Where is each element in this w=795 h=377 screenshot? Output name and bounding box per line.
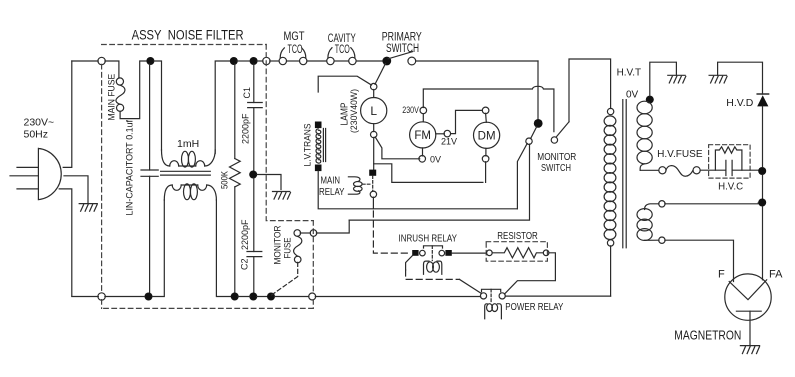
power relay circle right — [499, 293, 505, 299]
wire HVC to rail dot — [732, 169, 758, 171]
wire top bus between dots — [237, 60, 250, 62]
svg-text:1mH: 1mH — [177, 138, 199, 150]
wire HVT 0V to ground — [650, 62, 677, 96]
transformer HVT primary winding — [604, 116, 616, 240]
wire top bus left section — [72, 60, 98, 62]
svg-text:DM: DM — [478, 130, 496, 142]
node connector circle on box edge bottom — [98, 293, 105, 300]
choke L1 1mH top winding — [162, 150, 216, 167]
monitor switch moving circle right — [551, 137, 557, 143]
wire CAVITY TCO to primary switch — [356, 60, 383, 62]
junction dot C2 bottom — [249, 293, 257, 301]
svg-text:21V: 21V — [441, 137, 457, 147]
dashed wire monitor fuse to bus dot — [272, 262, 298, 295]
choke L1 1mH bottom winding — [164, 184, 216, 200]
junction dot 500K bottom — [231, 293, 239, 301]
wire primary switch dot to lamp node — [375, 64, 386, 85]
wire bottom bus power relay to HVT — [505, 295, 610, 297]
junction dot C1-C2 ground node — [249, 171, 257, 179]
terminal circle FM bottom 0V — [419, 156, 426, 163]
main relay moving contact circle — [370, 191, 376, 197]
junction dot primary switch common — [382, 57, 391, 66]
junction dot monitor fuse bottom node — [267, 293, 275, 301]
junction dot lin-capacitor top — [146, 57, 154, 65]
power relay blade — [460, 279, 482, 293]
dashed wire main relay node to inrush relay — [373, 211, 410, 253]
wire main relay to bus — [372, 197, 374, 209]
svg-text:FA: FA — [769, 269, 783, 281]
HVC internal resistor — [715, 147, 742, 170]
terminal circle DM top — [482, 107, 489, 114]
wire 500K bottom — [234, 187, 236, 293]
node connector circle monitor fuse box edge — [310, 230, 317, 237]
monitor fuse F2 — [294, 230, 302, 263]
svg-text:H.V.D: H.V.D — [726, 97, 753, 109]
wire bus dot to box edge circle — [257, 60, 263, 62]
svg-text:50Hz: 50Hz — [24, 129, 49, 141]
node connector circle on box right edge — [263, 57, 270, 64]
inrush relay armature bar — [424, 246, 443, 248]
dashed wire inrush to power relay — [406, 270, 460, 279]
capacitor C1 2200pF — [248, 64, 263, 171]
wire plug middle prong to ground — [64, 176, 88, 204]
svg-text:MAIN FUSE: MAIN FUSE — [107, 74, 117, 121]
wire choke top right riser to bus — [215, 61, 230, 154]
wire rail to magnetron FA — [762, 207, 764, 280]
svg-text:LIN-CAPACITORT 0.1uf: LIN-CAPACITORT 0.1uf — [125, 120, 135, 216]
inrush relay contact square left — [412, 250, 418, 256]
resistor R element — [492, 248, 543, 258]
inrush relay dashed link — [431, 246, 433, 261]
fuse HV FUSE — [659, 166, 700, 177]
wire top bus to choke left riser — [154, 61, 162, 150]
junction dot HVT 0V — [646, 96, 654, 104]
wire inrush bypass to power relay blade — [406, 256, 413, 270]
wire FM to 0V circle — [422, 148, 424, 156]
lamp L 230V40W — [361, 90, 387, 132]
transformer HVT core — [623, 100, 626, 248]
svg-text:0V: 0V — [626, 90, 639, 101]
inrush relay circle right — [439, 250, 445, 256]
svg-text:MAGNETRON: MAGNETRON — [674, 327, 741, 342]
monitor switch fixed dot — [534, 119, 543, 128]
svg-text:500K: 500K — [219, 171, 229, 189]
wire primary switch to monitor dot — [416, 60, 538, 62]
lamp bottom terminal circle — [371, 131, 377, 137]
resistor 500K — [230, 159, 241, 187]
resistor right circle — [543, 250, 549, 256]
wire lamp bottom to main relay contact — [373, 137, 375, 169]
terminal circle 21V — [444, 130, 451, 137]
wire magnetron to ground — [749, 311, 751, 345]
ground at magnetron — [740, 346, 759, 354]
ground at HVT secondary — [668, 75, 686, 83]
monitor switch moving circle left — [526, 138, 532, 144]
resistor dashed box — [486, 242, 547, 262]
svg-text:H.V.FUSE: H.V.FUSE — [657, 149, 703, 160]
svg-text:L.V.TRANS: L.V.TRANS — [303, 124, 313, 167]
node connector circle bottom box right edge — [309, 293, 316, 300]
junction dot C1 top — [250, 57, 258, 65]
main fuse F1 — [116, 78, 125, 112]
thermal cutout CAVITY TCO — [327, 48, 356, 65]
motor DM drive — [474, 122, 500, 148]
junction dot lin-capacitor bottom — [145, 293, 153, 301]
primary switch open contact circle — [408, 57, 416, 65]
wire monitor line to jog — [316, 220, 349, 233]
wire top bus to main fuse — [105, 61, 119, 78]
wire 21V to DM top — [451, 110, 483, 133]
inrush relay contact square right — [445, 250, 451, 256]
wire lamp node to FM 0V — [375, 137, 420, 159]
inrush relay coil — [424, 261, 442, 274]
power relay coil — [485, 304, 502, 319]
lin-capacitor C0 0.1uf — [141, 64, 158, 293]
thermal cutout MGT TCO — [279, 48, 307, 65]
junction dot 500K top — [230, 57, 238, 65]
svg-text:C1: C1 — [242, 87, 252, 99]
svg-text:230V~: 230V~ — [24, 117, 55, 129]
capacitor C2 2200pF — [247, 178, 262, 293]
wire bottom bus dot to edge circle — [275, 296, 309, 298]
inrush relay circle left — [420, 250, 426, 256]
svg-text:C2: C2 — [240, 258, 250, 270]
wire 500K top — [234, 64, 236, 159]
lamp top terminal circle — [371, 83, 377, 89]
main relay contact square — [369, 170, 376, 176]
wire bottom bus left section — [72, 296, 99, 298]
svg-text:MONITOR: MONITOR — [273, 225, 283, 264]
svg-text:H.V.C: H.V.C — [718, 182, 743, 193]
terminal circle DM bottom — [482, 156, 489, 163]
wire ground tap — [257, 175, 281, 190]
junction dot filament rail — [758, 199, 766, 207]
svg-text:RESISTOR: RESISTOR — [497, 230, 538, 242]
wire FM to 21V circle — [436, 133, 445, 135]
svg-text:POWER RELAY: POWER RELAY — [505, 301, 563, 313]
svg-text:2200pF: 2200pF — [241, 113, 251, 144]
svg-text:L: L — [370, 104, 377, 118]
wire monitor circle left down to monitor fuse line — [349, 144, 529, 220]
magnetron — [725, 274, 771, 320]
ground at plug — [79, 204, 97, 212]
svg-text:TCO: TCO — [288, 44, 303, 56]
svg-text:SWITCH: SWITCH — [541, 162, 571, 174]
wire DM to bottom circle and down — [485, 148, 487, 182]
transformer HVT secondary winding — [637, 101, 652, 170]
diode HVD — [757, 94, 768, 106]
monitor switch blade right — [557, 122, 569, 137]
svg-text:RELAY: RELAY — [319, 187, 345, 198]
svg-text:0V: 0V — [430, 154, 441, 164]
wire HVT primary bottom to bus — [610, 246, 612, 296]
choke core lines — [161, 171, 211, 175]
noise filter dashed box — [102, 45, 314, 309]
wire HVT secondary to HV fuse — [640, 169, 659, 171]
wire 230V line — [423, 86, 554, 131]
resistor left circle — [487, 250, 493, 256]
wire monitor circle left to relay bus — [517, 144, 527, 209]
terminal circle 230V — [420, 107, 427, 114]
svg-text:(230V40W): (230V40W) — [349, 89, 359, 133]
svg-text:FM: FM — [414, 130, 431, 142]
power relay dashed link — [490, 289, 492, 303]
wire HVD rail top to ground — [718, 62, 763, 94]
svg-text:SWITCH: SWITCH — [386, 43, 419, 55]
wire DM top circle to DM — [485, 113, 488, 122]
motor FM fan — [410, 122, 436, 148]
wire monitor fuse to edge circle — [300, 232, 310, 234]
svg-text:F: F — [718, 269, 725, 281]
wire bottom bus between dots — [238, 296, 267, 298]
svg-text:INRUSH RELAY: INRUSH RELAY — [399, 233, 458, 245]
svg-text:MGT: MGT — [284, 29, 306, 43]
node connector circle on box edge top — [98, 57, 105, 64]
dashed link main relay coil — [363, 183, 373, 185]
wire 230V circle to FM — [422, 114, 424, 122]
wire main fuse to bus — [120, 61, 146, 119]
wire bottom bus monitor box to power relay — [315, 296, 480, 298]
wire resistor to power relay — [505, 253, 556, 294]
svg-text:ASSY NOISE FILTER: ASSY NOISE FILTER — [132, 28, 244, 43]
ground at HVD — [709, 75, 727, 83]
power relay armature bar — [482, 289, 501, 292]
transformer L.V.TRANS — [315, 122, 326, 172]
HVC internal capacitor plates — [726, 160, 732, 175]
wire HV fuse to HVC — [700, 169, 726, 171]
monitor switch blade left — [531, 127, 537, 139]
wire plug bottom prong to bottom bus — [59, 189, 72, 296]
transformer HVT primary top terminal — [607, 108, 613, 114]
svg-text:TCO: TCO — [335, 44, 350, 56]
wire inrush relay to resistor — [452, 252, 486, 254]
wire bottom bus circle to choke — [105, 200, 164, 297]
svg-text:MAIN: MAIN — [321, 176, 341, 187]
power relay circle left — [480, 293, 486, 299]
wire L.V.TRANS bottom to relay bus — [318, 171, 517, 209]
main relay coil — [348, 177, 362, 194]
wire L.V.TRANS top to lamp node — [318, 76, 371, 92]
wire down to monitor switch with crossover hop — [537, 61, 539, 119]
wire box edge to MGT TCO — [270, 60, 279, 62]
ground at C1-C2 node — [273, 192, 291, 200]
monitor switch right contact wire from HVT — [569, 59, 611, 122]
wire filament top to rail dot — [665, 202, 758, 205]
wire HVD to rail dots — [762, 106, 764, 198]
svg-text:2200pF: 2200pF — [240, 219, 250, 250]
wire MGT to CAVITY TCO — [307, 60, 327, 62]
svg-text:H.V.T: H.V.T — [617, 67, 642, 79]
plug 230V 50Hz — [10, 148, 61, 199]
wire filament bottom to magnetron F — [665, 240, 734, 281]
main relay contact dashed link — [372, 176, 374, 192]
wire plug top prong to top bus — [63, 61, 72, 167]
primary switch blade — [388, 52, 412, 59]
svg-text:FUSE: FUSE — [283, 238, 293, 259]
junction dot HVC rail — [758, 167, 766, 175]
wire tap to DM bottom — [374, 164, 483, 183]
transformer HVT filament winding — [637, 201, 665, 244]
capacitor HVC assembly dashed box — [709, 145, 751, 178]
transformer HVT primary bottom terminal — [607, 240, 613, 246]
wire choke bottom right riser to bus — [216, 200, 231, 297]
svg-text:230V: 230V — [402, 105, 419, 115]
